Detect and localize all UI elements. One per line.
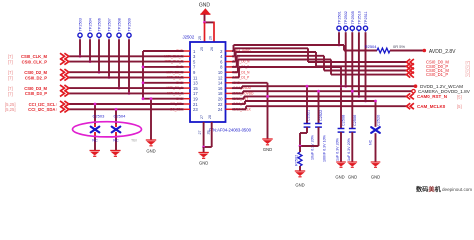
junction TP2506	[98, 71, 101, 74]
svg-text:[5]: [5]	[457, 94, 462, 99]
test point TP2510	[357, 26, 361, 32]
svg-text:TP2506: TP2506	[98, 18, 102, 31]
wire CSI0_D1_M	[232, 66, 237, 68]
junction gnd tie pin19	[142, 97, 145, 100]
wire C2521 top	[306, 86, 308, 123]
capacitor C2508	[338, 129, 345, 133]
test point TP2502	[344, 26, 348, 32]
svg-text:12: 12	[218, 75, 223, 80]
svg-text:28: 28	[208, 115, 212, 119]
wire SCL drop to C2503	[94, 104, 96, 124]
port CSI0_D2_P	[60, 74, 69, 80]
port CAM0_RST_N	[407, 93, 414, 99]
svg-text:GND: GND	[348, 175, 357, 180]
capacitor C2522	[315, 124, 322, 128]
svg-text:CSI0_D3_M: CSI0_D3_M	[24, 86, 47, 91]
port CCI_I2C_SDA	[60, 106, 69, 112]
svg-text:TP2510: TP2510	[357, 11, 361, 24]
test point TP2508	[117, 33, 121, 39]
junction C2520 tap	[374, 100, 377, 103]
port CSI0_D1_P	[407, 72, 414, 78]
junction RST row / pin14 gnd drop	[266, 95, 269, 98]
port CSI0_D3_M	[60, 85, 69, 91]
svg-text:[7]: [7]	[8, 54, 13, 59]
junction TP2502	[344, 85, 347, 88]
wire pin28 stub down	[211, 122, 213, 147]
svg-text:13: 13	[193, 81, 198, 86]
svg-text:TP2502: TP2502	[344, 11, 348, 24]
svg-text:[7]: [7]	[8, 91, 13, 96]
svg-text:GND: GND	[199, 161, 208, 166]
svg-text:CCI_I2C_SDA↑: CCI_I2C_SDA↑	[28, 107, 57, 112]
svg-text:24: 24	[218, 107, 223, 112]
wire CSI0_D1_P	[232, 71, 238, 73]
wire C2522 bottom	[318, 127, 320, 146]
wire CSI0_CLK_M	[69, 55, 184, 57]
test point TP2503	[78, 33, 82, 39]
wire CAM0_RST_N	[232, 98, 244, 100]
svg-text:1uF 6.3V 20%: 1uF 6.3V 20%	[347, 137, 351, 161]
svg-text:GND: GND	[335, 175, 344, 180]
capacitor C2506	[349, 129, 356, 133]
port CCI_I2C_SCL	[60, 101, 69, 107]
port CSI0_D0_M	[407, 59, 414, 65]
wire TP2505 stub	[351, 32, 353, 91]
svg-text:26: 26	[210, 47, 214, 51]
wire C2503 to ground	[94, 132, 96, 136]
test point TP2509	[127, 33, 131, 39]
wire R2502 to ground	[299, 166, 301, 171]
ground (pin14)	[262, 139, 272, 145]
svg-text:C2503: C2503	[93, 114, 106, 119]
svg-text:C2508: C2508	[342, 115, 346, 126]
wire CCI_I2C_SCL	[69, 103, 184, 105]
junction gnd tie pin7	[142, 66, 145, 69]
svg-text:TBI: TBI	[131, 139, 137, 143]
svg-text:GND: GND	[199, 3, 211, 9]
test point TP2504	[88, 33, 92, 39]
wire CSI0_D3_P	[69, 92, 184, 94]
resistor R2502	[298, 152, 302, 166]
svg-text:[5]: [5]	[457, 104, 462, 109]
wire TP2510 stub	[358, 32, 360, 96]
junction C2522/DOVDD	[317, 90, 320, 93]
wire CCI_I2C_SDA	[69, 108, 184, 110]
svg-text:CSI0_D2_P: CSI0_D2_P	[25, 75, 47, 80]
junction C2506/DOVDD	[351, 90, 354, 93]
svg-text:TP2507: TP2507	[108, 18, 112, 31]
wire TP2503 stub	[79, 39, 81, 56]
wire gnd vertical tie	[142, 51, 144, 99]
power port DVDD_1.2V_WCAM	[414, 84, 418, 88]
wire C2508 bottom	[340, 132, 342, 162]
wire TP2502 stub	[345, 32, 347, 86]
wire CSI0_D2_M	[69, 71, 184, 73]
svg-text:TP2509: TP2509	[128, 18, 132, 31]
wire TP2504 stub	[89, 39, 91, 61]
wire TP2509 stub	[128, 39, 130, 93]
wire gnd row pin13	[143, 82, 184, 84]
svg-text:27: 27	[198, 131, 202, 135]
wire C2520 to ground	[375, 133, 377, 162]
test point TP2511	[363, 26, 367, 32]
junction TP2501	[338, 44, 341, 47]
svg-text:C2504: C2504	[114, 114, 127, 119]
wire CSI0_CLK_P	[69, 61, 184, 63]
svg-text:20: 20	[218, 97, 223, 102]
svg-text:GND: GND	[263, 147, 272, 152]
svg-text:P/N:AF04-24083-0500: P/N:AF04-24083-0500	[209, 128, 252, 133]
svg-text:14: 14	[218, 81, 223, 86]
junction C2508 column / DVDD row	[340, 85, 343, 88]
svg-text:CSI0_D1_P: CSI0_D1_P	[426, 72, 448, 77]
wire SDA drop to C2504	[115, 109, 117, 124]
svg-text:C2522: C2522	[319, 110, 323, 121]
wire C2508 column upper	[340, 67, 342, 129]
svg-text:TP2505: TP2505	[351, 11, 355, 24]
junction TP2507	[108, 76, 111, 79]
svg-text:GND: GND	[146, 149, 155, 154]
capacitor C2521	[304, 124, 311, 128]
junction TP2508	[118, 87, 121, 90]
svg-text:CAM0_RST_N: CAM0_RST_N	[417, 94, 447, 99]
svg-text:100nF 6.3V 10%: 100nF 6.3V 10%	[323, 134, 327, 162]
svg-text:16: 16	[218, 86, 223, 91]
wire pin26 stub	[213, 22, 215, 43]
test point TP2507	[107, 33, 111, 39]
svg-text:0R 5%: 0R 5%	[393, 44, 405, 49]
junction TP2510	[358, 95, 361, 98]
svg-text:R2502: R2502	[295, 155, 299, 166]
junction SCL/C2503	[94, 103, 97, 106]
svg-text:19: 19	[193, 97, 198, 102]
svg-text:10uF 6.3V 20%: 10uF 6.3V 20%	[311, 134, 315, 160]
svg-text:NC: NC	[369, 139, 373, 145]
svg-text:C2521: C2521	[307, 110, 311, 121]
svg-text:17: 17	[193, 91, 198, 96]
wire gnd row pin19	[143, 98, 184, 100]
svg-text:22: 22	[218, 102, 223, 107]
svg-text:27: 27	[200, 115, 204, 119]
svg-text:26: 26	[209, 36, 213, 40]
junction pins 27/28	[202, 146, 205, 149]
wire cap bottoms join bar	[300, 145, 319, 147]
junction TP2505	[351, 90, 354, 93]
wire pin25 stub	[204, 22, 206, 42]
wire C2506 column from DOVDD	[351, 91, 353, 128]
wire CSI0_D2_P	[69, 77, 184, 79]
svg-text:[5,25]: [5,25]	[5, 107, 15, 112]
ground (C2508)	[336, 162, 346, 167]
svg-text:[7]: [7]	[8, 70, 13, 75]
port CSI0_D1_M	[407, 68, 414, 74]
wire DVDD_1.2V_WCAM	[232, 87, 242, 89]
wire gnd row pin1	[143, 50, 184, 52]
svg-text:C2520: C2520	[377, 115, 381, 126]
test point TP2505	[350, 26, 354, 32]
junction SDA/C2504	[115, 108, 118, 111]
wire C2504 to ground	[115, 132, 117, 136]
junction TP2509	[128, 92, 131, 95]
svg-text:21: 21	[193, 102, 198, 107]
svg-text:23: 23	[193, 107, 198, 112]
svg-text:[7]: [7]	[8, 60, 13, 65]
svg-text:AVDD_2.8V: AVDD_2.8V	[429, 49, 456, 55]
wire pin22 to C2520	[232, 103, 245, 105]
junction gnd drop	[150, 97, 153, 100]
svg-text:NC: NC	[113, 139, 119, 143]
svg-text:1uF 6.3V 20%: 1uF 6.3V 20%	[336, 137, 340, 161]
svg-text:CCI_I2C_SCL↑: CCI_I2C_SCL↑	[29, 102, 58, 107]
junction TP2511	[364, 100, 367, 103]
svg-text:[5,25]: [5,25]	[5, 102, 15, 107]
highlight ellipse around C2503/C2504	[73, 122, 142, 137]
J2502 left pin stubs	[184, 50, 190, 52]
svg-text:R2504: R2504	[365, 44, 378, 49]
junction TP2504	[89, 60, 92, 63]
junction top GND	[203, 21, 206, 24]
test point TP2501	[337, 26, 341, 32]
capacitor C2504 (NC, crossed out)	[112, 127, 121, 133]
resistor R2504	[377, 48, 390, 53]
svg-text:数码美机: 数码美机	[416, 186, 442, 194]
port CSI0_CLK_M	[60, 53, 69, 59]
wire TP2508 stub	[118, 39, 120, 88]
svg-text:[7]: [7]	[466, 72, 470, 77]
svg-text:25: 25	[200, 47, 204, 51]
junction gnd tie pin13	[142, 81, 145, 84]
wire TP2501 stub	[338, 32, 340, 45]
wire TP2511 stub	[365, 32, 367, 101]
ground (left mid)	[146, 140, 156, 146]
svg-text:CSI0_CLK_P: CSI0_CLK_P	[22, 59, 48, 64]
wire TP2507 stub	[108, 39, 110, 77]
svg-text:TP2501: TP2501	[338, 11, 342, 24]
power symbol GND (top, above J2502)	[199, 3, 211, 15]
wire C2521 bottom (jog left)	[306, 127, 308, 133]
wire C2506 bottom	[351, 132, 353, 162]
wire joining pins 27 28	[204, 146, 212, 148]
ground (C2520)	[371, 162, 381, 167]
svg-text:J2502: J2502	[183, 35, 195, 40]
ground (connector shield)	[198, 153, 208, 159]
ground (C2506)	[348, 162, 358, 167]
svg-text:25: 25	[198, 36, 202, 40]
wire pin27 stub down	[203, 122, 205, 147]
wire CSI0_D0_M	[232, 55, 235, 57]
junction TP2503	[79, 55, 82, 58]
wire CAM_MCLK0	[232, 108, 246, 110]
svg-text:TP2503: TP2503	[79, 18, 83, 31]
svg-text:28: 28	[206, 131, 210, 135]
svg-text:CSI0_D2_M: CSI0_D2_M	[24, 70, 47, 75]
wire CSI0_D3_M	[69, 87, 184, 89]
svg-text:18: 18	[218, 91, 223, 96]
capacitor C2503 (NC, crossed out)	[91, 127, 100, 133]
port CSI0_D2_M	[60, 69, 69, 75]
svg-text:10: 10	[218, 70, 223, 75]
svg-text:NC: NC	[92, 139, 98, 143]
svg-text:CSI0_CLK_M: CSI0_CLK_M	[21, 54, 48, 59]
wire TP2506 stub	[98, 39, 100, 72]
svg-text:GND: GND	[295, 183, 304, 188]
wire AVDD net (pin2, jog up to bundle)	[232, 50, 234, 52]
svg-text:deepinout.com: deepinout.com	[442, 187, 472, 192]
wire to shield ground	[203, 147, 205, 153]
connector J2502 body	[190, 42, 226, 122]
wire gnd row pin7	[143, 66, 184, 68]
svg-text:TP2511: TP2511	[364, 11, 368, 24]
wire CSI0_D0_P	[232, 61, 236, 63]
svg-text:CAM_MCLK0: CAM_MCLK0	[417, 104, 446, 109]
wire pin14 row to ground	[232, 82, 268, 84]
svg-text:C2506: C2506	[353, 115, 357, 126]
svg-text:11: 11	[193, 75, 198, 80]
port CAM_MCLK0	[407, 103, 414, 109]
junction C2521/DVDD	[306, 85, 309, 88]
svg-text:CSI0_D3_P: CSI0_D3_P	[25, 91, 47, 96]
ground (C2503)	[90, 151, 100, 157]
wire R2504 to AVDD port	[390, 50, 423, 52]
test point TP2506	[97, 33, 101, 39]
junction R2502 top	[299, 145, 302, 148]
svg-text:[7]: [7]	[8, 75, 13, 80]
port CSI0_D0_P	[407, 63, 414, 69]
svg-text:TP2504: TP2504	[89, 18, 93, 31]
wire C2522 top	[318, 91, 320, 123]
svg-text:GND: GND	[371, 175, 380, 180]
capacitor C2520 (NC, crossed out)	[371, 127, 380, 133]
power port CAMERA_DOVDD_1.8V	[412, 90, 415, 93]
svg-text:[7]: [7]	[8, 86, 13, 91]
ground (C2504)	[110, 151, 120, 157]
wire CAMERA_DOVDD_1.8V	[232, 92, 243, 94]
port CSI0_D3_P	[60, 90, 69, 96]
wire pin12 row to C2508 column	[232, 77, 239, 79]
J2502 right pin stubs	[226, 50, 233, 52]
power port AVDD_2.8V	[423, 49, 427, 53]
svg-text:15: 15	[193, 86, 198, 91]
ground (R2502)	[295, 171, 305, 177]
wire GND stem to top pins	[204, 14, 206, 22]
svg-text:TP2508: TP2508	[118, 18, 122, 31]
wire gnd drop to symbol	[150, 99, 152, 140]
port CSI0_CLK_P	[60, 59, 69, 65]
